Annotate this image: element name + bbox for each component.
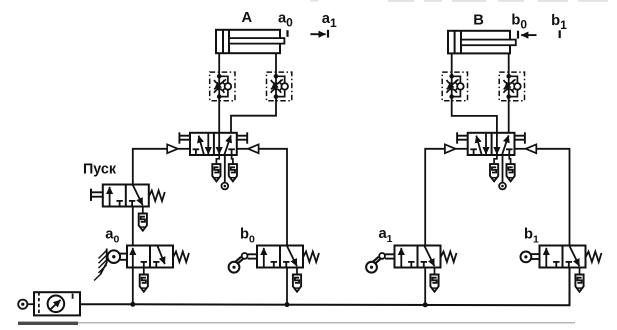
wire cylinder B rod-end to valve B port 2	[508, 53, 510, 132]
silencer of valve a0	[140, 275, 148, 292]
valve a0 right position blocked port	[155, 262, 157, 268]
flow control valve FCV-A1 throttle arcs	[214, 80, 224, 84]
valve b1 right position blocked port	[568, 262, 570, 268]
air service unit port tick	[72, 294, 74, 299]
valve V-A right position down flow arrow	[218, 133, 220, 154]
valve b1 right position diagonal flow arrow	[570, 246, 580, 266]
valve a1 right position diagonal flow arrow	[425, 246, 435, 266]
valve b0 position divider	[279, 246, 281, 268]
valve V-A body	[190, 133, 237, 155]
valve Pusk right position blocked port	[131, 201, 133, 207]
flow control valve FCV-A1 check ball	[225, 83, 232, 90]
svg-text:A: A	[241, 10, 252, 26]
node bus junction b0	[285, 302, 290, 307]
valve a0 position divider	[149, 246, 151, 268]
valve b1 exhaust stub	[579, 268, 581, 275]
wire b1 valve to bus riser	[569, 268, 571, 306]
valve V-A right position blocked port	[231, 149, 233, 155]
node a0 position tick	[286, 30, 288, 37]
wire V-B supply drop	[502, 155, 504, 183]
node FCV-A1 top junction	[217, 74, 222, 79]
valve b1 body	[540, 246, 586, 268]
valve a1 position divider	[417, 246, 419, 268]
node FCV-B2 bottom junction	[506, 94, 511, 99]
valve b1 left position blocked port	[555, 262, 557, 268]
node FCV-A2 top junction	[274, 74, 279, 79]
valve V-B position divider	[491, 133, 493, 155]
valve a0 left position blocked port	[143, 262, 145, 268]
valve V-A right position diagonal flow arrow	[224, 135, 231, 154]
valve Pusk body	[103, 185, 149, 207]
valve a0 roller plunger	[120, 253, 127, 255]
node FCV-A2 bottom junction	[274, 94, 279, 99]
svg-text:B: B	[473, 12, 484, 28]
wire valve B left pilot to a1	[425, 149, 445, 246]
valve a0 body	[127, 246, 173, 268]
valve V-B right position diagonal flow arrow	[502, 135, 509, 154]
silencer of valve b1	[575, 275, 583, 292]
flow control valve FCV-A2 enclosure	[267, 72, 292, 101]
valve b1 roller plunger	[531, 253, 539, 255]
stroke direction arrow a1	[310, 33, 325, 35]
valve V-B left position diagonal flow arrow	[476, 136, 481, 155]
cylinder B body	[448, 31, 510, 54]
flow control valve FCV-B1 enclosure	[442, 72, 467, 101]
flow control valve FCV-B2 check seat	[512, 82, 515, 91]
node bus junction a0	[130, 302, 135, 307]
valve a0 cam wall	[101, 249, 107, 274]
air service unit body	[34, 292, 80, 315]
flow control valve FCV-A2 adjust arrow	[271, 79, 283, 89]
valve b1 roller	[521, 252, 532, 263]
wire start valve to a0 valve	[132, 207, 134, 246]
silencer of valve b0	[293, 275, 301, 292]
valve a1 left position blocked port	[410, 262, 412, 268]
wire V-B left pilot stub	[456, 148, 468, 150]
valve V-B right exhaust stub	[509, 155, 510, 164]
valve b0 body	[257, 246, 303, 268]
valve b0 lever link	[237, 259, 243, 265]
node b0 position tick	[517, 31, 519, 39]
wire cylinder B cap-end to valve B port 4	[452, 53, 497, 132]
node a1 position tick	[327, 30, 329, 38]
valve V-B right pilot triangle	[526, 144, 537, 153]
silencer under valve V-A right	[229, 164, 237, 181]
valve Pusk push button actuator	[90, 189, 92, 201]
air service unit filter divider	[38, 292, 40, 315]
cylinder A body	[216, 30, 280, 53]
valve a0 cam hatching	[99, 250, 107, 258]
flow control valve FCV-A1 bypass check line	[219, 76, 228, 96]
air service unit gauge	[48, 296, 65, 313]
valve V-A left position down flow arrow	[207, 134, 209, 155]
valve Pusk position divider	[125, 185, 127, 207]
node FCV-A1 bottom junction	[217, 94, 222, 99]
valve b0 return spring	[303, 252, 319, 263]
wire cylinder A cap-end to valve A port 4	[218, 53, 220, 133]
flow control valve FCV-B2 check ball	[514, 83, 521, 90]
valve b0 right position blocked port	[285, 262, 287, 268]
valve a0 roller	[108, 250, 121, 263]
wire valve B right pilot to b1	[536, 149, 569, 246]
valve a1 exhaust stub	[434, 268, 436, 275]
valve a0 left position up flow arrow	[132, 248, 134, 267]
valve b1 left position up flow arrow	[545, 248, 547, 267]
valve a1 left position up flow arrow	[400, 248, 402, 267]
valve Pusk right position diagonal flow arrow	[133, 185, 143, 205]
flow control valve FCV-B1 check seat	[455, 82, 458, 91]
flow control valve FCV-A2 throttle arcs	[271, 80, 281, 84]
valve Pusk left position blocked port	[119, 201, 121, 207]
valve b1 position divider	[562, 246, 564, 268]
page artifact bottom text remnant	[18, 322, 78, 325]
valve b0 roller plunger	[248, 253, 257, 255]
valve V-A left position diagonal flow arrow	[199, 136, 204, 155]
wire source to service unit	[27, 303, 34, 305]
silencer under valve V-B right	[507, 164, 515, 181]
flow control valve FCV-B2 throttle arcs	[504, 80, 514, 84]
valve a1 lever joint	[379, 253, 385, 259]
valve Pusk exhaust stub	[142, 207, 144, 214]
flow control valve FCV-B1 throttle arcs	[447, 80, 457, 84]
valve V-A left pilot triangle	[167, 144, 178, 153]
cylinder A piston	[222, 30, 224, 53]
valve V-B left pilot cap	[456, 132, 458, 143]
flow control valve FCV-B1 bypass check line	[452, 76, 461, 96]
pressure source symbol under valve V-A	[221, 183, 228, 190]
wire valve A right pilot to b0	[259, 149, 287, 246]
svg-text:Пуск: Пуск	[83, 162, 117, 178]
page artifact top scan remnants	[310, 0, 318, 2]
cylinder A rod	[229, 38, 284, 44]
valve a1 right position blocked port	[423, 262, 425, 268]
silencer of valve a1	[430, 275, 438, 292]
pressure source symbol under valve V-B	[499, 183, 506, 190]
valve a1 return spring	[441, 252, 457, 263]
silencer of valve Pusk	[139, 214, 147, 231]
flow control valve FCV-B1 check ball	[457, 83, 464, 90]
page artifact bottom line	[78, 322, 575, 323]
wire V-A supply drop	[224, 155, 226, 183]
stroke direction arrow b0	[521, 34, 536, 36]
node FCV-B1 bottom junction	[449, 94, 454, 99]
wire a1 valve to bus	[424, 268, 426, 306]
valve b0 left position up flow arrow	[263, 248, 265, 267]
valve a0 right position diagonal flow arrow	[158, 246, 165, 264]
valve V-B right position blocked port	[508, 149, 510, 155]
valve V-A right pilot triangle	[248, 144, 259, 153]
valve V-A right pilot cap	[246, 132, 248, 143]
wire valve A left pilot to start chain	[133, 149, 167, 185]
valve V-A right exhaust stub	[232, 155, 233, 164]
valve V-B right position down flow arrow	[496, 133, 498, 154]
flow control valve FCV-A2 bypass check line	[276, 76, 285, 96]
wire supply bus	[80, 268, 570, 306]
valve b0 left position blocked port	[273, 262, 275, 268]
flow control valve FCV-A1 check seat	[223, 82, 226, 91]
valve V-A left pilot cap	[178, 132, 180, 143]
valve a1 lever link	[374, 259, 380, 265]
valve V-A left position blocked port	[195, 149, 197, 155]
valve a1 roller plunger	[385, 253, 394, 255]
valve a1 body	[395, 246, 441, 268]
valve V-B left pilot triangle	[445, 144, 456, 153]
valve V-A position divider	[213, 133, 215, 155]
cylinder B piston	[454, 31, 456, 54]
valve b0 roller	[229, 262, 240, 273]
valve Pusk return spring	[149, 191, 165, 202]
wire a0 valve to bus	[132, 268, 134, 305]
valve V-B left position down flow arrow	[485, 134, 487, 155]
wire V-B right pilot stub	[515, 148, 526, 150]
node bus junction a1	[423, 302, 428, 307]
flow control valve FCV-B2 enclosure	[499, 72, 524, 101]
flow control valve FCV-B2 bypass check line	[509, 76, 518, 96]
cylinder B rod	[461, 40, 516, 46]
valve V-B left position blocked port	[473, 149, 475, 155]
wire b0 valve to bus	[286, 268, 288, 305]
valve Pusk left position up flow arrow	[109, 187, 111, 206]
flow control valve FCV-A2 check seat	[279, 82, 282, 91]
silencer under valve V-B left	[490, 164, 498, 181]
node FCV-B2 top junction	[506, 74, 511, 79]
valve a1 roller	[366, 262, 377, 273]
wire cylinder A rod-end to valve A port 2	[231, 53, 276, 133]
flow control valve FCV-A2 check ball	[281, 83, 288, 90]
valve a0 return spring	[173, 252, 189, 263]
wire V-A left pilot stub	[178, 148, 190, 150]
valve b0 exhaust stub	[296, 268, 298, 275]
air source symbol	[18, 300, 27, 309]
valve b0 lever joint	[242, 253, 248, 259]
node FCV-B1 top junction	[449, 74, 454, 79]
valve b0 right position diagonal flow arrow	[287, 246, 297, 266]
flow control valve FCV-B1 adjust arrow	[447, 79, 459, 89]
flow control valve FCV-B2 adjust arrow	[504, 79, 516, 89]
valve V-A left exhaust stub	[216, 155, 219, 164]
air service unit gauge needle	[51, 300, 61, 309]
node b1 position tick	[559, 30, 561, 38]
valve a0 exhaust stub	[143, 268, 145, 275]
valve b1 return spring	[586, 252, 602, 263]
wire V-A right pilot stub	[237, 148, 248, 150]
flow control valve FCV-A1 adjust arrow	[214, 79, 226, 89]
valve V-B body	[468, 133, 515, 155]
valve V-B left exhaust stub	[494, 155, 497, 164]
silencer under valve V-A left	[212, 164, 220, 181]
valve V-B right pilot cap	[524, 132, 526, 143]
flow control valve FCV-A1 enclosure	[210, 72, 235, 101]
